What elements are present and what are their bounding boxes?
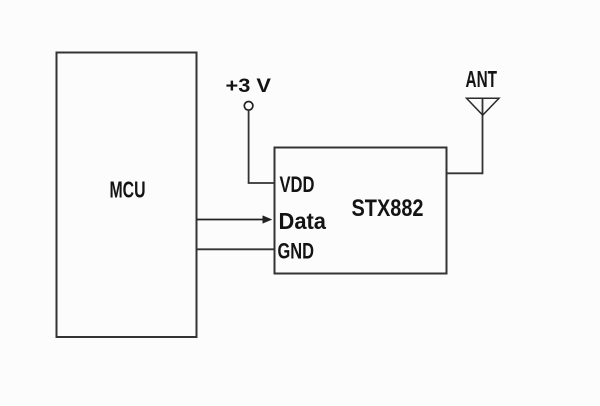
wire MCU to Data	[197, 219, 265, 221]
wire MCU to GND	[197, 248, 275, 250]
svg-text:VDD: VDD	[280, 172, 315, 197]
svg-text:STX882: STX882	[352, 195, 424, 222]
wire antenna mast	[482, 98, 484, 175]
svg-text:Data: Data	[279, 208, 327, 234]
wire STX882 to antenna horizontal	[447, 172, 483, 174]
power terminal circle	[244, 102, 253, 111]
antenna ANT symbol	[467, 98, 500, 115]
module STX882 U2	[275, 148, 447, 274]
wire +3V to VDD	[248, 182, 275, 184]
svg-text:ANT: ANT	[466, 66, 498, 92]
arrowhead Data	[263, 215, 273, 223]
svg-text:GND: GND	[278, 238, 315, 263]
svg-text:MCU: MCU	[110, 177, 146, 203]
svg-text:+3 V: +3 V	[226, 76, 272, 97]
wire +3V vertical	[248, 110, 250, 183]
MCU block U1	[57, 53, 197, 338]
